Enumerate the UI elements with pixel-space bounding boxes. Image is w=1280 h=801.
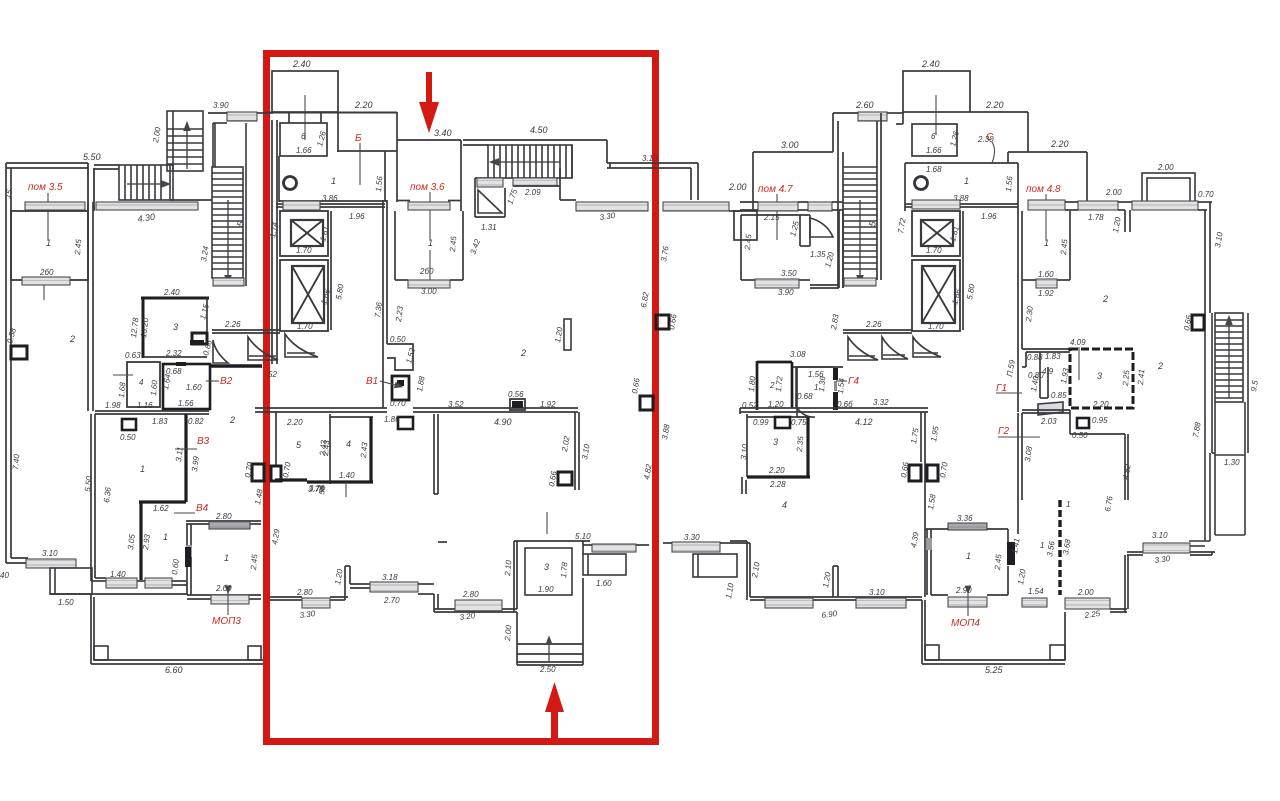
stair B landing hatch (844, 278, 876, 286)
svg-text:0.50: 0.50 (390, 335, 406, 344)
svg-text:2.б0: 2.б0 (215, 584, 232, 593)
svg-text:6: 6 (931, 132, 936, 141)
leader пом4.7 (776, 194, 778, 240)
stair S4 arrow left (494, 161, 560, 163)
door block red line y315 (656, 315, 669, 329)
wall x1125 down B (1125, 434, 1128, 500)
leader Г4 (836, 380, 847, 382)
door arc kB (797, 408, 815, 417)
svg-text:В4: В4 (196, 503, 209, 514)
svg-text:3.10: 3.10 (869, 588, 885, 597)
svg-text:3: 3 (173, 322, 178, 332)
svg-text:2.00: 2.00 (1105, 188, 1122, 197)
svg-text:2.45: 2.45 (249, 553, 259, 571)
red arrow up (bottom entrance) (545, 682, 564, 738)
svg-text:1.68: 1.68 (926, 165, 942, 174)
svg-text:2.30: 2.30 (977, 135, 994, 144)
svg-text:2: 2 (69, 334, 75, 344)
svg-text:0.70: 0.70 (1198, 190, 1214, 199)
stair S1 mid flight (119, 165, 173, 200)
svg-text:1: 1 (163, 532, 168, 542)
T-stub wall B (833, 566, 838, 597)
room Б walls (337, 112, 397, 152)
svg-text:0.50: 0.50 (120, 433, 136, 442)
svg-text:2.35: 2.35 (795, 435, 805, 453)
leader пом4.8 (1045, 194, 1047, 240)
bottom-left wall y581 (91, 414, 187, 585)
svg-text:1.б0: 1.б0 (596, 579, 612, 588)
inner room thick wall (139, 502, 142, 580)
svg-text:1: 1 (964, 176, 969, 186)
sill 2.80 right of red (302, 598, 330, 608)
svg-text:пом 4.7: пом 4.7 (758, 184, 793, 195)
corridor wall x385 (383, 200, 387, 408)
svg-text:В3: В3 (197, 436, 210, 447)
entry lobby3 walls (514, 541, 590, 665)
sill 3.18 (370, 582, 418, 592)
wall y152 B left (753, 152, 833, 211)
stair S3 down arrow (227, 200, 229, 280)
U box 0.50 (1077, 418, 1089, 428)
svg-text:2.40: 2.40 (292, 59, 311, 69)
svg-text:5.10: 5.10 (575, 532, 591, 541)
svg-text:1: 1 (966, 551, 971, 561)
svg-text:2.90: 2.90 (955, 586, 972, 595)
svg-text:0.63: 0.63 (125, 351, 141, 360)
room4 B cluster walls (1022, 349, 1070, 398)
porch mid square (729, 211, 757, 240)
red arrow down (top entrance) (419, 72, 439, 133)
sill B above stair (833, 112, 903, 121)
window sill left bottom (26, 559, 76, 568)
sill under balcony B (1132, 201, 1198, 210)
leader lobby3 (546, 512, 548, 534)
svg-text:3.10: 3.10 (42, 549, 58, 558)
closet door arc B (810, 218, 833, 237)
room3 B thick walls (747, 417, 810, 477)
window sill room1 bottom (22, 277, 70, 300)
svg-text:1.56: 1.56 (178, 399, 194, 408)
svg-text:2.20: 2.20 (1050, 139, 1069, 149)
svg-text:1: 1 (331, 176, 336, 186)
svg-text:1.60: 1.60 (186, 383, 202, 392)
svg-text:2.43: 2.43 (321, 439, 331, 457)
stair S3 main flight (212, 167, 246, 286)
door gap МОП4 (926, 538, 932, 550)
leader Г1 (996, 392, 1022, 394)
svg-text:1.83: 1.83 (152, 417, 168, 426)
svg-text:1.70: 1.70 (296, 246, 312, 255)
svg-text:пом 4.8: пом 4.8 (1026, 184, 1061, 195)
room3 B walls (747, 414, 807, 477)
svg-text:3: 3 (1097, 371, 1102, 381)
svg-text:52: 52 (268, 370, 277, 379)
wall right of sill B (1110, 555, 1128, 612)
elevator E2 B (912, 260, 960, 331)
svg-text:пом 3.5: пом 3.5 (28, 182, 63, 193)
svg-text:1.70: 1.70 (926, 246, 942, 255)
sill МОП4 top (948, 523, 987, 530)
svg-text:2.26: 2.26 (224, 320, 241, 329)
svg-text:1.62: 1.62 (153, 504, 169, 513)
svg-text:3.30: 3.30 (684, 533, 700, 542)
right stair SB (1212, 313, 1248, 453)
thick bits B (833, 368, 838, 410)
leader В4 (174, 512, 195, 514)
svg-text:3.10: 3.10 (642, 154, 658, 163)
svg-text:1.40: 1.40 (110, 570, 126, 579)
sill 2.80 entry (455, 600, 502, 611)
svg-text:3.36: 3.36 (957, 514, 973, 523)
svg-text:2.32: 2.32 (165, 349, 182, 358)
kitchen B walls (905, 163, 1018, 211)
shaft left of stair (475, 178, 505, 217)
leader room4 (113, 374, 133, 376)
МОП3 room top wall and sill (186, 521, 261, 524)
door notch room3 (192, 333, 207, 344)
svg-text:1.56: 1.56 (1004, 175, 1014, 192)
box 2.40 top unit B (903, 71, 970, 112)
corridor bottom wall right of red (270, 542, 517, 612)
leader В2 (206, 380, 219, 382)
lobby sill above E1 (283, 201, 320, 210)
stair B down arrow (859, 200, 861, 280)
corridor bottom wall under stair (212, 330, 280, 333)
svg-text:1.66: 1.66 (296, 146, 312, 155)
svg-text:0.70: 0.70 (390, 399, 406, 408)
corridor sill segment B (663, 202, 729, 211)
vent box corridor (122, 419, 136, 430)
svg-text:7.40: 7.40 (11, 453, 21, 470)
closet В (387, 344, 413, 370)
leader В3 (175, 448, 197, 450)
svg-text:1.78: 1.78 (1088, 213, 1104, 222)
upper corridor wall right of stair (572, 140, 698, 200)
svg-text:В1: В1 (366, 376, 378, 387)
right stair lower part (1189, 330, 1245, 546)
thick wall В3 (184, 414, 187, 502)
leader 1 (429, 250, 431, 284)
stair S3 upper landing walls (213, 123, 246, 167)
door blocks B party wall (909, 465, 938, 481)
svg-text:2.40: 2.40 (163, 288, 180, 297)
svg-text:2.20: 2.20 (985, 100, 1004, 110)
svg-text:0.85: 0.85 (1051, 391, 1067, 400)
sink circle (284, 177, 297, 190)
wall stub x1118 (1065, 202, 1132, 232)
porch corner notch R (248, 646, 261, 660)
svg-text:2: 2 (229, 415, 235, 425)
sill пом3.6 room (408, 202, 450, 210)
room3 B dashed thick (1070, 349, 1133, 408)
svg-text:Г4: Г4 (848, 376, 859, 387)
room5 walls (275, 411, 277, 466)
пом3.6 room walls (397, 112, 461, 211)
sill B right of red (663, 542, 730, 552)
svg-text:3.18: 3.18 (382, 573, 398, 582)
svg-text:2.25: 2.25 (1121, 369, 1131, 387)
svg-text:2.45: 2.45 (1059, 238, 1069, 256)
stair S4 landing hatch (513, 178, 557, 186)
top wall to stair 4.50 (463, 140, 607, 145)
svg-text:6: 6 (301, 132, 306, 141)
leader МОП3 (227, 590, 229, 615)
lobby wall x963 B (905, 204, 1018, 330)
svg-text:2.10: 2.10 (503, 559, 513, 577)
svg-text:2: 2 (1157, 361, 1163, 371)
svg-text:2.41: 2.41 (1136, 369, 1146, 386)
room5 thick bottom (275, 480, 330, 482)
stair lower landing walls (513, 168, 576, 200)
svg-text:4: 4 (139, 378, 144, 387)
red highlight frame (267, 54, 656, 742)
left unit outer wall top (6, 163, 88, 563)
svg-text:0.56: 0.56 (508, 390, 524, 399)
porch corner notch L (94, 646, 108, 660)
svg-text:3.00: 3.00 (421, 287, 437, 296)
room2 small B (757, 361, 792, 410)
svg-text:4.90: 4.90 (494, 417, 512, 427)
sink circle B (915, 177, 928, 190)
svg-text:Б: Б (355, 133, 362, 144)
porch B notch L (925, 645, 939, 660)
wall x925 B down (921, 412, 925, 597)
svg-text:1.31: 1.31 (481, 223, 497, 232)
svg-text:2.70: 2.70 (383, 596, 400, 605)
svg-text:2.60: 2.60 (855, 100, 874, 110)
svg-text:0.68: 0.68 (797, 392, 813, 401)
leader МОП4 (967, 590, 969, 616)
box 2.40 top unit A (272, 71, 338, 112)
sill above balcony (583, 544, 649, 552)
room1 right B (1022, 211, 1070, 280)
svg-text:1: 1 (1044, 238, 1049, 248)
corridor sill segment A (576, 202, 648, 211)
svg-text:0.75: 0.75 (791, 418, 807, 427)
svg-text:2.00: 2.00 (1157, 163, 1174, 172)
svg-text:1: 1 (1040, 541, 1044, 550)
svg-text:4: 4 (782, 500, 787, 510)
door arc under party wall (213, 340, 228, 363)
svg-text:В2: В2 (220, 376, 233, 387)
porch B notch R (1050, 645, 1065, 660)
svg-text:1: 1 (1066, 500, 1070, 509)
svg-text:0.95: 0.95 (1092, 416, 1108, 425)
svg-text:1.50: 1.50 (58, 598, 74, 607)
corridor B sill row mid (808, 202, 832, 211)
svg-text:1.40: 1.40 (339, 471, 355, 480)
svg-text:2.40: 2.40 (921, 59, 940, 69)
right stair arrow up (1228, 320, 1230, 398)
balcony left bottom (50, 568, 92, 594)
svg-text:3.90: 3.90 (213, 101, 229, 110)
balcony right of lobby (583, 554, 626, 575)
svg-text:0.82: 0.82 (188, 417, 204, 426)
svg-text:2.26: 2.26 (865, 320, 882, 329)
svg-text:2.03: 2.03 (1040, 417, 1057, 426)
corridor wall y408 B (740, 408, 928, 414)
leader пом3.6 (429, 192, 431, 240)
svg-text:2.20: 2.20 (354, 100, 373, 110)
sill пом4.7 room (755, 279, 799, 288)
svg-text:1.35: 1.35 (810, 250, 826, 259)
corridor B wall bits (740, 202, 843, 210)
svg-text:1: 1 (46, 238, 51, 248)
vent box on left wall (11, 346, 27, 359)
svg-text:1: 1 (224, 553, 229, 563)
svg-text:2б0: 2б0 (39, 268, 54, 277)
svg-text:1.90: 1.90 (538, 585, 554, 594)
svg-text:1.56: 1.56 (374, 175, 384, 192)
wall x578 down (575, 412, 579, 490)
svg-text:4.9: 4.9 (1042, 367, 1054, 376)
svg-text:1.72: 1.72 (774, 375, 784, 392)
sills bottom mid B (1022, 598, 1047, 607)
corridor wall y408 left part (95, 408, 578, 414)
пом4.8 sill2 (1078, 201, 1118, 210)
leader box2.40 (304, 95, 306, 140)
svg-text:6.60: 6.60 (165, 665, 183, 675)
wall x272 corridor edge (272, 120, 277, 364)
svg-text:1.80: 1.80 (747, 375, 757, 392)
svg-text:3.50: 3.50 (781, 269, 797, 278)
room4 small box (127, 362, 160, 407)
corridor B sill row left (758, 202, 798, 211)
svg-text:0.88: 0.88 (1027, 353, 1043, 362)
elevator shaft E1 (280, 211, 328, 256)
leader room4b (345, 482, 347, 497)
svg-text:2: 2 (1102, 294, 1108, 304)
bottom wall left unit (6, 558, 28, 563)
wall top unit A (94, 165, 212, 200)
sill B corridor 2 (856, 598, 906, 608)
svg-text:2.00: 2.00 (503, 624, 513, 642)
svg-text:2б0: 2б0 (419, 267, 434, 276)
svg-text:2.80: 2.80 (462, 590, 479, 599)
svg-text:0.99: 0.99 (753, 418, 769, 427)
svg-text:1.54: 1.54 (1028, 587, 1044, 596)
svg-text:4.09: 4.09 (1070, 338, 1086, 347)
svg-text:1.54: 1.54 (836, 377, 846, 394)
svg-text:1.70: 1.70 (297, 322, 313, 331)
svg-text:Г2: Г2 (998, 426, 1009, 437)
svg-text:2.45: 2.45 (448, 235, 458, 253)
sill below room1 (408, 280, 450, 288)
svg-text:1: 1 (140, 464, 145, 474)
svg-text:1.92: 1.92 (1038, 289, 1054, 298)
svg-text:1.60: 1.60 (149, 379, 159, 396)
balcony B bottom (693, 554, 737, 577)
door notch room3 B (775, 417, 790, 428)
ramp pair below elevators (248, 334, 318, 360)
door block red line y395 (640, 396, 653, 410)
steps arrow (548, 640, 550, 662)
stair B side walls (833, 113, 881, 288)
leader пом 3.5 (47, 193, 49, 240)
party wall left-unit / unit A (88, 202, 93, 411)
porch B (922, 600, 1065, 664)
svg-text:3.86: 3.86 (322, 194, 338, 203)
svg-text:2.00: 2.00 (1077, 588, 1094, 597)
пом4.7 lower room (741, 215, 810, 280)
door block 0.66 B right (1192, 315, 1204, 330)
svg-text:1.16: 1.16 (137, 401, 153, 410)
svg-text:3.90: 3.90 (778, 288, 794, 297)
svg-text:4.12: 4.12 (855, 417, 873, 427)
sill МОП4 bottom (948, 597, 987, 607)
wall x840 B (810, 210, 843, 288)
svg-text:МОП3: МОП3 (212, 616, 241, 627)
stair S2 up arrow (186, 126, 188, 169)
wall stub lobby top (437, 541, 439, 543)
svg-text:2.45: 2.45 (993, 553, 1003, 571)
svg-text:1.70: 1.70 (928, 322, 944, 331)
svg-text:1: 1 (428, 238, 433, 248)
door gap gray (186, 545, 192, 557)
svg-text:1.92: 1.92 (540, 400, 556, 409)
room 1 (пом3.5) walls (11, 163, 94, 280)
door blocks red line y470 (252, 464, 281, 481)
room 6 B (896, 112, 957, 156)
svg-text:1.98: 1.98 (105, 401, 121, 410)
dashed thick wall B (1058, 500, 1061, 595)
leader C (992, 142, 995, 163)
svg-text:1.96: 1.96 (981, 212, 997, 221)
shaft hatch box (477, 178, 503, 187)
lobby wall x331 (276, 204, 385, 330)
svg-text:2.20: 2.20 (1092, 400, 1109, 409)
МОП3 left wall (187, 524, 191, 595)
terrace porch outline (50, 594, 263, 664)
svg-text:2.80: 2.80 (215, 512, 232, 521)
kitchen walls (279, 151, 387, 202)
room4 box mid (330, 414, 373, 484)
svg-text:3.10: 3.10 (1152, 531, 1168, 540)
svg-text:МОП4: МОП4 (951, 618, 980, 629)
sill above E1 B (912, 200, 960, 209)
lobby wall x1018 B (1018, 211, 1022, 412)
kitchen小 B walls (793, 367, 843, 407)
party wall thick to red box (210, 364, 262, 367)
corridor B bottom walls (730, 541, 922, 600)
svg-text:2.20: 2.20 (286, 418, 303, 427)
wall y152 B right (1008, 152, 1087, 202)
right outer wall B (1198, 202, 1212, 330)
elevator E1 B (912, 211, 960, 256)
svg-text:2.80: 2.80 (296, 588, 313, 597)
leader В1 (380, 381, 399, 386)
leader box B (935, 95, 937, 135)
svg-text:5.25: 5.25 (985, 665, 1004, 675)
svg-text:1.68: 1.68 (117, 381, 127, 398)
пом4.8 room sill (1028, 200, 1065, 210)
shaft door diagonal (478, 190, 502, 213)
svg-text:3: 3 (544, 562, 549, 572)
sill B corridor 1 (765, 598, 813, 608)
svg-text:1.86: 1.86 (384, 415, 400, 424)
МОП4 room (925, 529, 1008, 595)
lobby3 inner box (525, 548, 572, 595)
room1 kB thin walls (796, 367, 833, 407)
corner door block corridor (398, 417, 413, 429)
sill bottom right (1143, 543, 1190, 553)
svg-text:2.20: 2.20 (768, 466, 785, 475)
corridor wall y410 B right (1018, 410, 1125, 534)
balcony top B (1142, 173, 1195, 202)
svg-text:2.15: 2.15 (763, 213, 780, 222)
svg-text:2.00: 2.00 (728, 182, 747, 192)
threshold parallelogram (1038, 402, 1063, 415)
